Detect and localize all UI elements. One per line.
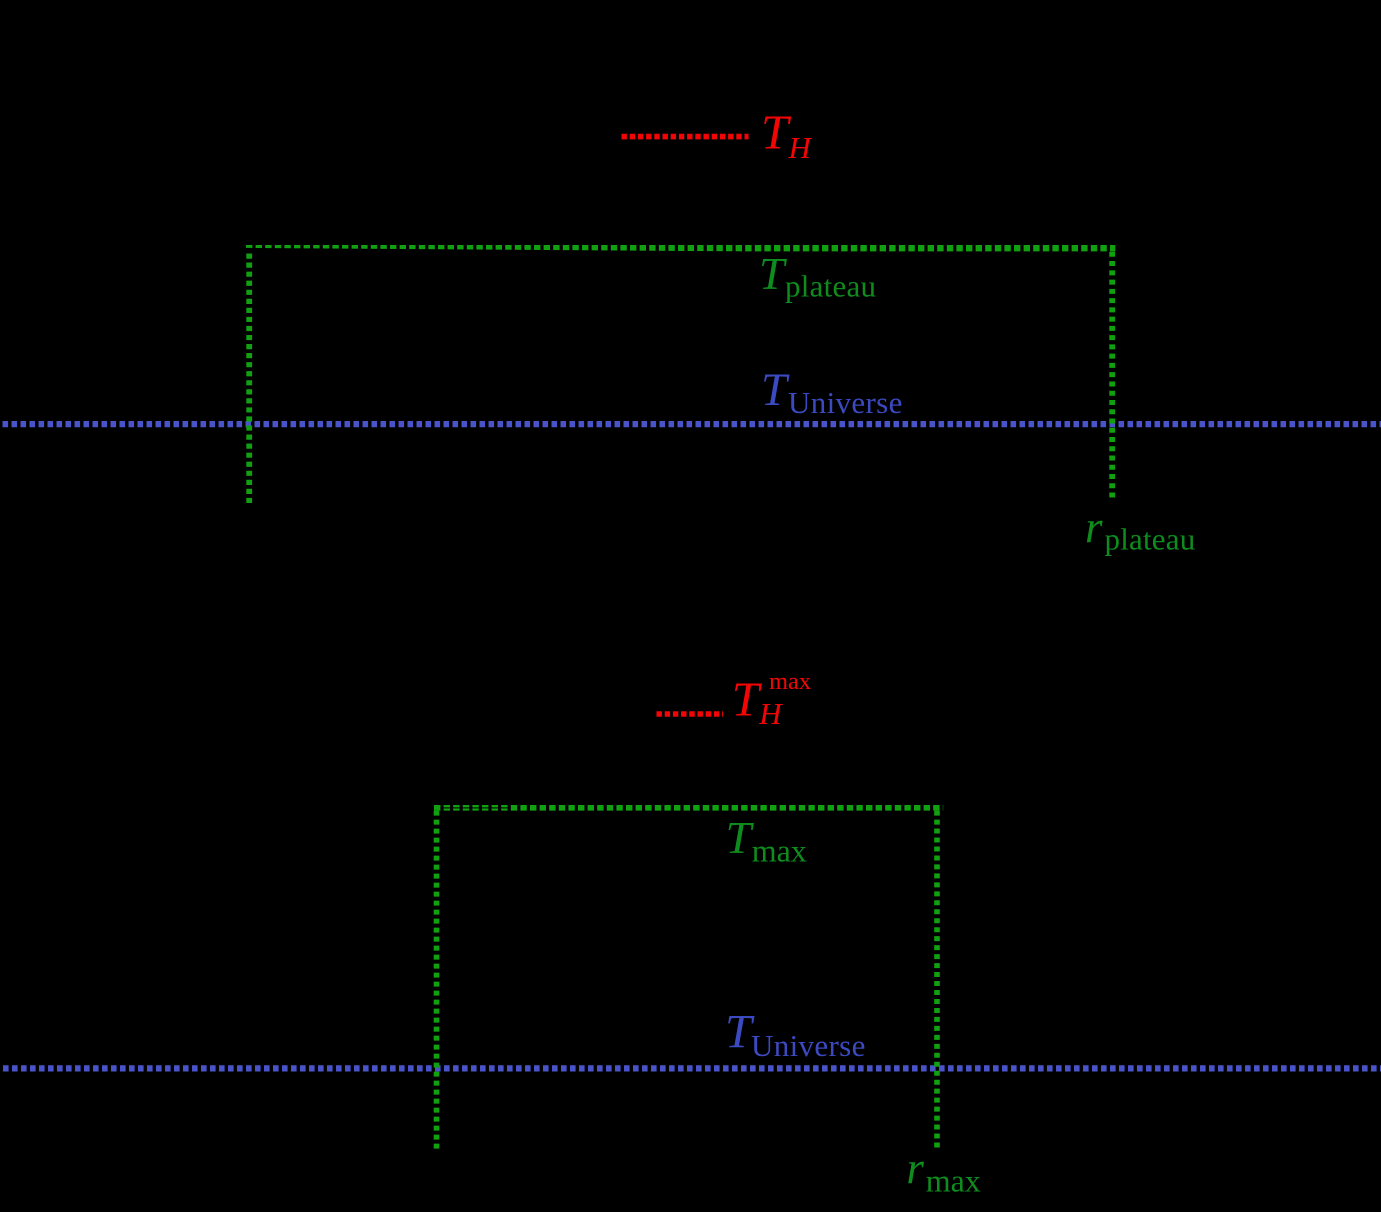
svg-text:max: max xyxy=(752,833,807,869)
svg-text:H: H xyxy=(788,130,813,165)
svg-text:r: r xyxy=(1085,502,1103,552)
svg-text:r: r xyxy=(906,1143,924,1193)
svg-text:Universe: Universe xyxy=(751,1028,866,1063)
svg-text:H: H xyxy=(758,696,783,731)
svg-text:T: T xyxy=(761,105,792,160)
svg-text:Universe: Universe xyxy=(788,385,903,420)
svg-text:max: max xyxy=(926,1163,981,1199)
svg-text:T: T xyxy=(732,672,763,727)
svg-text:plateau: plateau xyxy=(785,269,876,304)
svg-text:max: max xyxy=(769,668,811,695)
svg-text:plateau: plateau xyxy=(1105,522,1196,557)
svg-text:T: T xyxy=(726,812,755,863)
svg-text:T: T xyxy=(761,365,790,416)
svg-text:T: T xyxy=(759,248,787,299)
